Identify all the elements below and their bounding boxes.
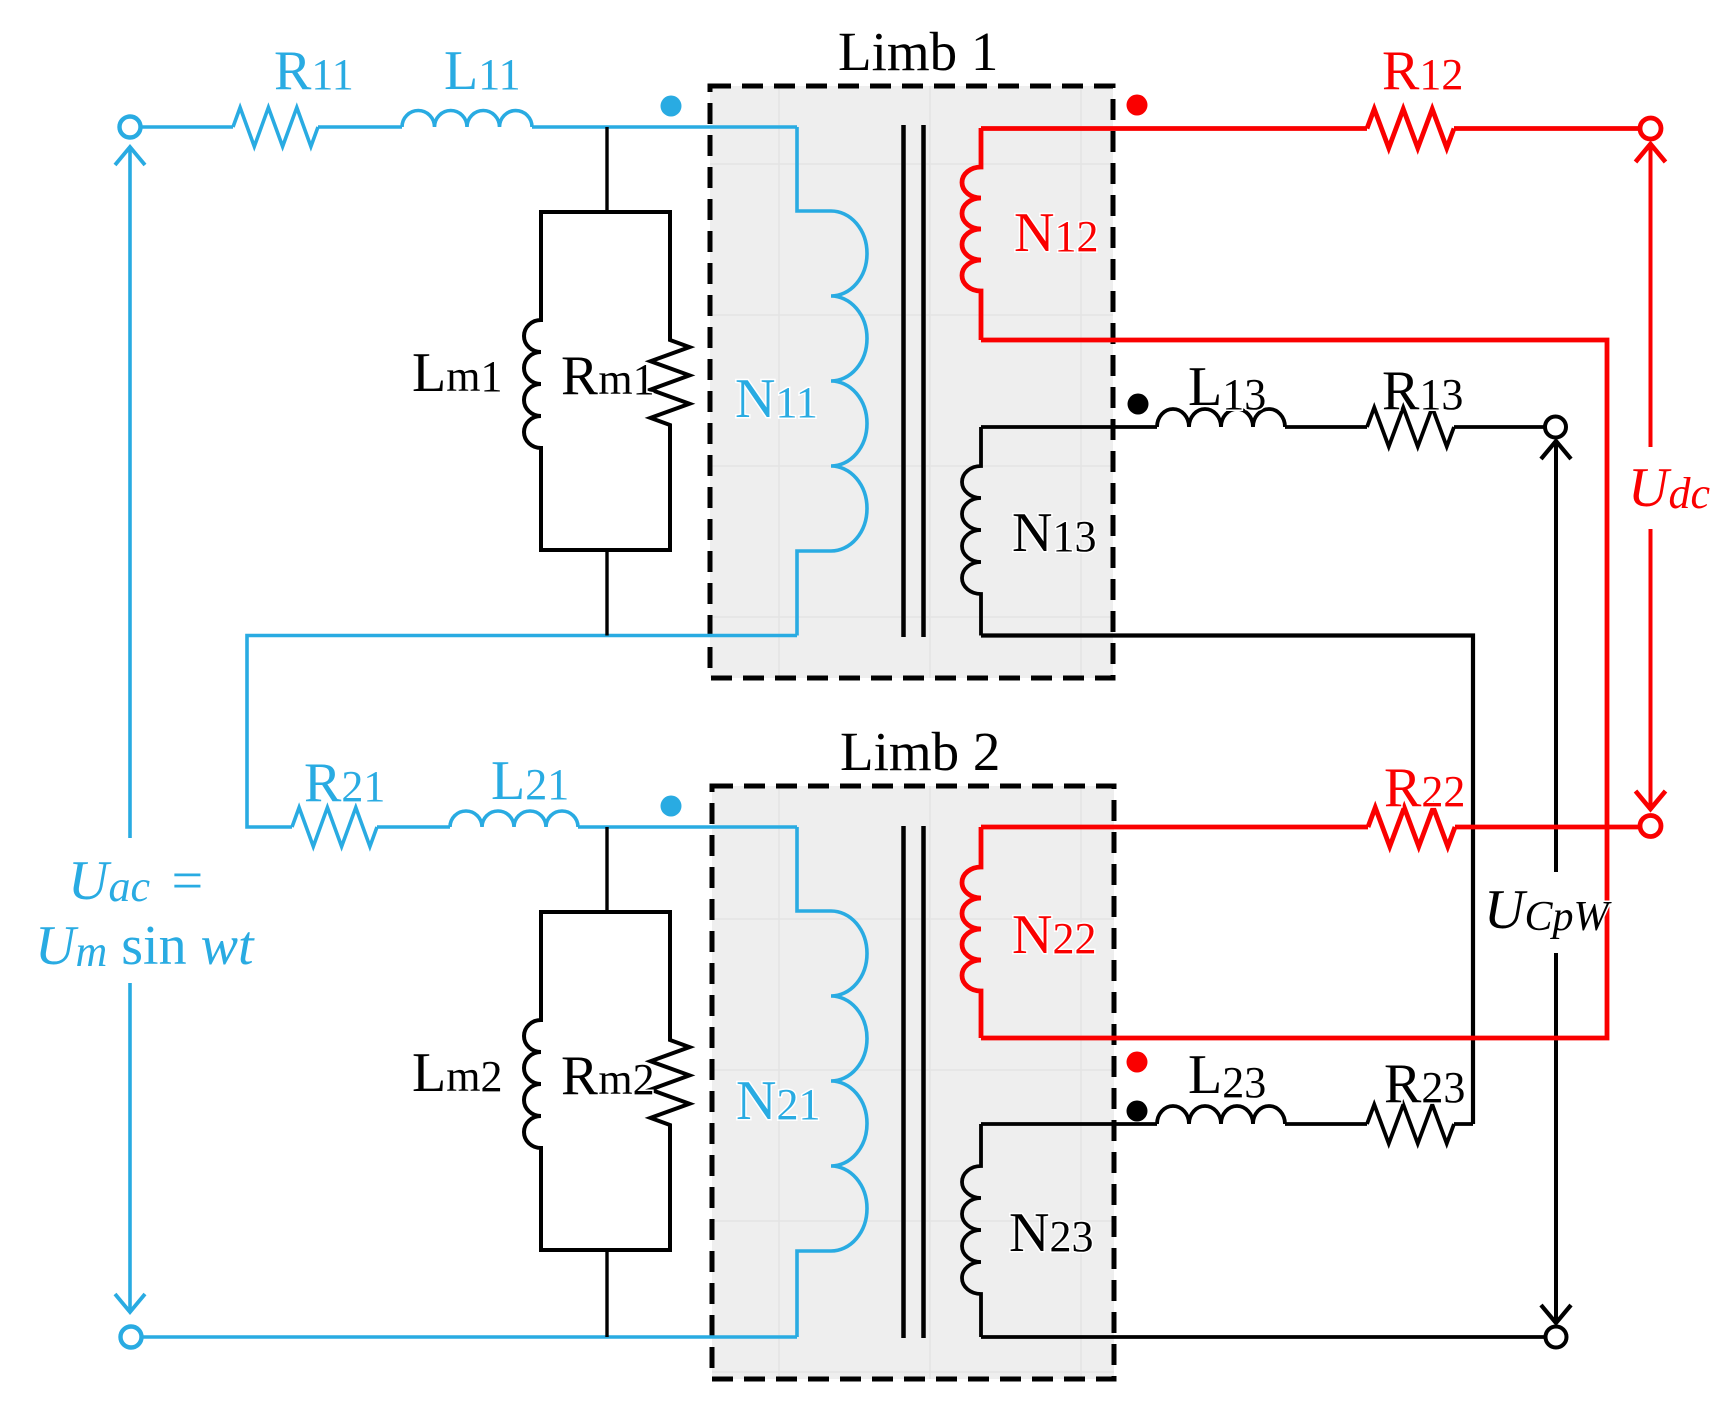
svg-text:N13: N13 — [1012, 502, 1096, 564]
wire: N11 bottom to limb2 input — [247, 636, 797, 828]
wire: N12 bottom to N22 bottom — [981, 340, 1607, 1038]
wire — [1285, 425, 1367, 429]
polarity dot N12 — [1127, 95, 1148, 116]
limb 2 dashed boundary — [712, 786, 1114, 1379]
resistor R23 — [1367, 1105, 1454, 1144]
svg-text:Um sin wt: Um sin wt — [35, 915, 255, 977]
wire: stub to Lm2/Rm2 — [605, 827, 608, 1337]
wire — [1454, 126, 1641, 131]
svg-text:N22: N22 — [1012, 904, 1096, 966]
svg-text:Limb 1: Limb 1 — [838, 21, 998, 82]
inductor Lm1 (left branch) — [524, 212, 607, 550]
winding N23 — [962, 1124, 981, 1337]
resistor R11 — [233, 108, 318, 147]
svg-text:N23: N23 — [1009, 1202, 1093, 1264]
svg-text:R22: R22 — [1384, 757, 1465, 819]
svg-text:R11: R11 — [274, 40, 354, 102]
terminal: Udc bottom — [1640, 816, 1661, 837]
winding N21 — [797, 827, 867, 1337]
wire: source top lead — [141, 125, 233, 129]
wire — [318, 125, 402, 129]
svg-text:Limb 2: Limb 2 — [840, 721, 1000, 782]
source arrow down — [115, 1294, 145, 1312]
winding N22 — [962, 827, 981, 1038]
terminal: source bottom — [121, 1327, 142, 1348]
inductor L21 — [450, 811, 578, 827]
polarity dot N22 — [1127, 1052, 1148, 1073]
polarity dot N21 — [661, 796, 682, 817]
wire: N13 top lead — [981, 425, 1157, 429]
wire — [578, 825, 797, 829]
resistor R21 — [292, 808, 377, 847]
measurement arrow UCpW — [1541, 441, 1571, 1323]
svg-text:N12: N12 — [1014, 202, 1098, 264]
svg-text:R12: R12 — [1382, 40, 1463, 102]
wire — [1285, 1122, 1367, 1126]
core T1 (limb 1 core bars) — [904, 125, 924, 637]
wire — [1454, 1122, 1473, 1126]
svg-text:Rm2: Rm2 — [561, 1045, 655, 1107]
winding N13 — [962, 427, 981, 636]
resistor R12 — [1367, 109, 1454, 148]
resistor Rm1 (right branch) — [607, 212, 690, 550]
limb 2 shaded core region — [712, 786, 1114, 1379]
resistor Rm2 (right branch) — [607, 912, 690, 1250]
wire: stub to Lm1/Rm1 — [605, 127, 608, 636]
svg-text:R21: R21 — [304, 752, 385, 814]
limb 1 dashed boundary — [710, 86, 1113, 678]
winding N12 — [962, 128, 981, 340]
terminal: R13 output — [1545, 417, 1566, 438]
inductor L13 — [1157, 409, 1285, 427]
wire: bottom return — [142, 1335, 797, 1339]
core T2 (limb 2 core bars) — [904, 826, 924, 1338]
winding N11 — [797, 127, 867, 636]
wire: N22 top lead — [981, 825, 1368, 830]
svg-text:Lm2: Lm2 — [412, 1042, 502, 1104]
svg-text:R13: R13 — [1382, 360, 1463, 422]
svg-text:R23: R23 — [1384, 1053, 1465, 1115]
wire: N12 top lead — [981, 126, 1367, 131]
wire — [532, 125, 797, 129]
wire: source vertical — [128, 147, 132, 1312]
svg-text:Rm1: Rm1 — [561, 345, 655, 407]
polarity dot N23 — [1127, 1101, 1148, 1122]
wire — [377, 825, 450, 829]
measurement arrow Udc — [1636, 144, 1666, 809]
source arrow up — [115, 147, 145, 165]
wire — [1455, 825, 1641, 830]
wire: N23 top lead — [981, 1122, 1157, 1126]
svg-text:L21: L21 — [491, 750, 569, 812]
svg-text:N11: N11 — [735, 368, 818, 430]
polarity dot N13 — [1128, 394, 1149, 415]
terminal: bottom output — [1546, 1327, 1567, 1348]
terminal: Udc top — [1640, 118, 1661, 139]
polarity dot N11 — [661, 96, 682, 117]
resistor R22 — [1368, 808, 1455, 847]
wire: N23 bottom lead — [981, 1335, 1546, 1339]
wire — [1454, 425, 1545, 429]
inductor L23 — [1157, 1106, 1285, 1124]
inductor Lm2 (left branch) — [524, 912, 607, 1250]
svg-text:N21: N21 — [736, 1070, 820, 1132]
wire: N13 bottom to R23 — [981, 636, 1473, 1125]
terminal: source top — [120, 117, 141, 138]
resistor R13 — [1367, 408, 1454, 447]
svg-text:Lm1: Lm1 — [412, 342, 502, 404]
inductor L11 — [402, 111, 532, 127]
limb 1 shaded core region — [710, 86, 1113, 678]
svg-text:L11: L11 — [444, 40, 521, 102]
